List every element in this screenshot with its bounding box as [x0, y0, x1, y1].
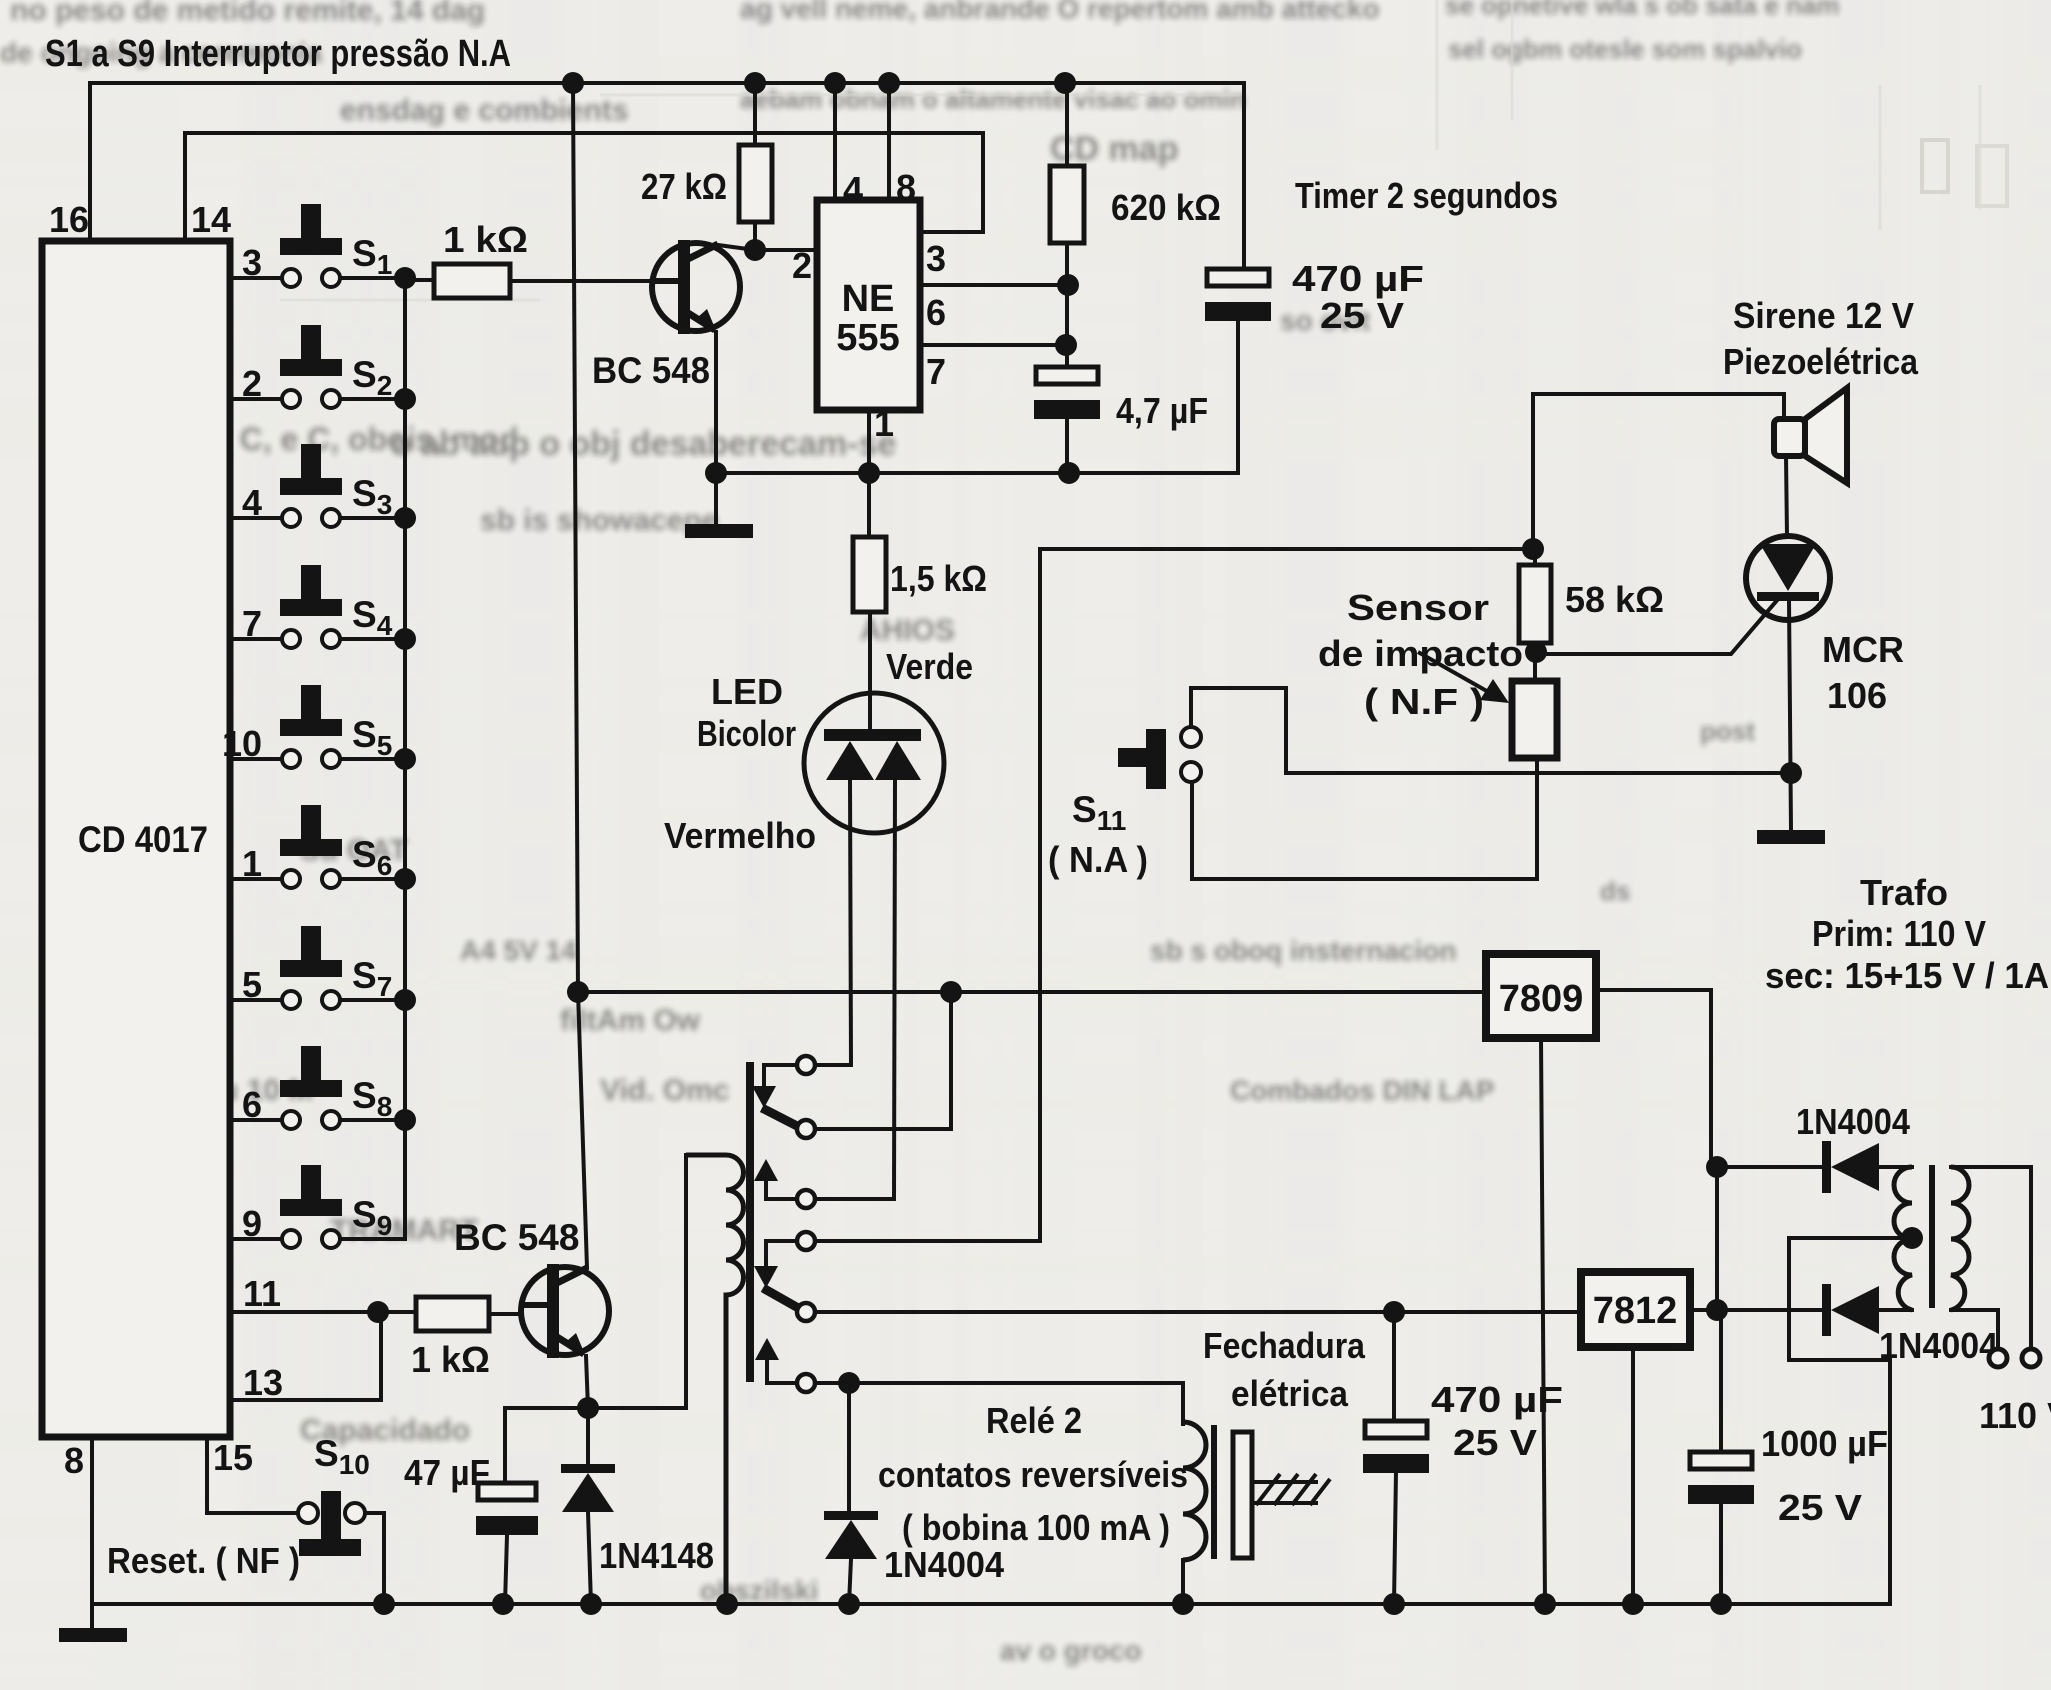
svg-text:1N4004: 1N4004: [1879, 1325, 1998, 1366]
svg-text:1N4004: 1N4004: [1796, 1101, 1910, 1142]
wire upper diode to secondary: [1879, 1165, 1912, 1169]
svg-text:11: 11: [243, 1273, 281, 1314]
wire contact4 to alarm feed: [816, 1239, 1040, 1243]
svg-text:S1 a S9 Interruptor pressão N.: S1 a S9 Interruptor pressão N.A: [45, 33, 511, 75]
svg-text:2: 2: [242, 363, 262, 404]
wire rectifier node vertical: [1715, 1167, 1719, 1310]
junction contact6 diode: [838, 1372, 860, 1394]
svg-text:1N4148: 1N4148: [599, 1535, 714, 1576]
IC CD4017 body: [42, 241, 230, 1437]
wire CD4017 pin 1 to S6: [230, 877, 282, 881]
switch S7 pushbutton: [301, 926, 321, 960]
svg-text:no peso de metido remite, 14 d: no peso de metido remite, 14 dag: [10, 0, 485, 27]
svg-text:sb s oboq insternacion: sb s oboq insternacion: [1150, 935, 1456, 966]
wire S1 to keypad bus: [340, 276, 405, 280]
junction 1N4148 rail: [580, 1593, 602, 1615]
svg-text:110 V: 110 V: [1979, 1395, 2051, 1436]
svg-text:CD 4017: CD 4017: [78, 819, 208, 860]
svg-text:1 kΩ: 1 kΩ: [411, 1339, 490, 1380]
wire siren to MCR anode: [1786, 456, 1787, 537]
junction 1N4004 rail: [838, 1593, 860, 1615]
svg-text:16: 16: [49, 199, 89, 240]
IC NE555 body: [817, 200, 920, 410]
wire Q2 emitter down: [586, 1356, 588, 1408]
relay contact 4 (NC pole2): [797, 1232, 815, 1250]
svg-text:6: 6: [242, 1084, 262, 1125]
svg-text:Vermelho: Vermelho: [664, 815, 816, 856]
junction 470uF2 rail: [1383, 1593, 1405, 1615]
wire node to 47uF: [505, 1406, 588, 1410]
svg-text:1,5 kΩ: 1,5 kΩ: [890, 558, 987, 599]
relay arm pole1: [762, 1108, 799, 1127]
resistor R 1k (keypad): [434, 264, 510, 298]
svg-text:sec: 15+15 V / 1A: sec: 15+15 V / 1A: [1765, 955, 2049, 996]
svg-text:Prim: 110 V: Prim: 110 V: [1812, 913, 1986, 954]
wire contact2 to 9V rail: [816, 992, 951, 1129]
svg-text:8: 8: [64, 1440, 84, 1481]
ground (Q1 emitter): [685, 524, 753, 538]
svg-text:4,7 µF: 4,7 µF: [1116, 390, 1208, 431]
wire NO1 stub: [766, 1181, 796, 1199]
wire 7812 in: [1690, 1308, 1717, 1312]
wire 1.5k to LED: [868, 612, 872, 731]
junction 4.7uF ground row: [1058, 462, 1080, 484]
wire S4 to keypad bus: [340, 637, 405, 641]
wire NE555 pin 6: [920, 283, 1069, 287]
svg-text:7: 7: [242, 603, 262, 644]
wire S3 to keypad bus: [340, 516, 405, 520]
wire to lower 1N4004: [1717, 1308, 1822, 1312]
wire CD4017 pin 7 to S4: [230, 637, 282, 641]
wire 4.7uF to ground row: [1065, 417, 1069, 473]
regulator 7812 body: [1581, 1272, 1690, 1347]
svg-text:Timer 2 segundos: Timer 2 segundos: [1295, 175, 1558, 216]
svg-text:LED: LED: [711, 671, 783, 712]
switch S11 pushbutton: [1118, 748, 1150, 767]
junction Q2 emitter node: [577, 1397, 599, 1419]
wire CD4017 pin 11: [230, 1310, 416, 1314]
svg-text:Combados DIN LAP: Combados DIN LAP: [1230, 1075, 1494, 1106]
wire 620k to 4.7uF: [1065, 243, 1069, 367]
svg-text:7: 7: [926, 351, 946, 392]
wire bus to 1k resistor: [405, 278, 434, 282]
junction 47uF rail: [492, 1593, 514, 1615]
wire pin 15 to S10: [207, 1437, 298, 1513]
resistor 620k: [1050, 166, 1084, 243]
junction pin7: [1055, 334, 1077, 356]
svg-text:BC 548: BC 548: [454, 1217, 579, 1258]
ground (pin 8): [59, 1628, 127, 1642]
wire S11 bottom to sensor: [1192, 758, 1537, 879]
svg-text:13: 13: [243, 1362, 283, 1403]
wire primary top to terminal: [1951, 1167, 2031, 1350]
switch S10 pushbutton: [298, 1503, 318, 1523]
wire S10 to bottom rail: [365, 1513, 384, 1604]
svg-text:7812: 7812: [1593, 1290, 1678, 1332]
capacitor 1000uF: [1690, 1452, 1752, 1469]
wire +9V vertical to Q2 collector: [573, 83, 587, 1268]
regulator 7809 body: [1486, 954, 1596, 1038]
svg-text:15: 15: [213, 1437, 253, 1478]
svg-text:ds: ds: [1600, 876, 1630, 906]
wire contact3 to LED green: [816, 1197, 894, 1201]
transistor Q2 BC548: [521, 1267, 609, 1355]
wire ground row to 1.5k: [867, 473, 871, 537]
svg-text:Piezoelétrica: Piezoelétrica: [1723, 341, 1919, 382]
svg-text:3: 3: [242, 242, 262, 283]
svg-text:Verde: Verde: [886, 646, 973, 687]
wire S6 to keypad bus: [340, 877, 405, 881]
junction MCR cathode node: [1780, 762, 1802, 784]
svg-text:sb is showacepe: sb is showacepe: [480, 504, 718, 537]
svg-text:elétrica: elétrica: [1231, 1373, 1349, 1414]
junction S8 bus: [394, 1109, 416, 1131]
capacitor 4.7uF: [1036, 367, 1098, 384]
junction Q1 collector / 27k / pin2: [744, 239, 766, 261]
resistor 27k: [739, 145, 772, 222]
wire CD4017 pin 6 to S8: [230, 1118, 282, 1122]
siren speaker: [1774, 419, 1805, 456]
wire rail to 620k: [1065, 83, 1069, 166]
wire NE555 pin 7: [920, 343, 1065, 347]
wire node to NE555 pin 2: [755, 248, 817, 252]
junction S1 bus: [394, 267, 416, 289]
wire 12V to 470uF2: [1392, 1312, 1396, 1421]
wire NC2 stub: [766, 1241, 796, 1266]
svg-text:CD map: CD map: [1050, 130, 1178, 168]
resistor 58k: [1519, 565, 1551, 643]
terminal 110V a: [1989, 1349, 2007, 1367]
wire CD4017 pin 10 to S5: [230, 757, 282, 761]
impact sensor body: [1512, 681, 1557, 758]
junction S2 bus: [394, 388, 416, 410]
relay contact 3 (NO pole1): [797, 1190, 815, 1208]
wire to upper 1N4004: [1717, 1165, 1822, 1169]
wire contact5 to 7812 out: [816, 1310, 1581, 1314]
svg-text:( N.A ): ( N.A ): [1048, 839, 1148, 880]
wire NE555 pin 1 down: [867, 410, 871, 473]
svg-text:( bobina 100 mA ): ( bobina 100 mA ): [902, 1507, 1170, 1548]
svg-text:8: 8: [896, 167, 916, 208]
junction rectifier + upper: [1706, 1156, 1728, 1178]
electric lock armature: [1233, 1432, 1252, 1558]
svg-text:ensdag e combients: ensdag e combients: [340, 94, 628, 127]
junction 7812 gnd rail: [1622, 1593, 1644, 1615]
transistor Q1 BC548: [652, 243, 740, 331]
relay NO2 arrow: [755, 1338, 779, 1360]
diode 1N4148: [561, 1464, 615, 1473]
junction center tap: [1901, 1227, 1923, 1249]
resistor 1k (Q2): [416, 1297, 489, 1331]
svg-text:Reset. ( NF ): Reset. ( NF ): [107, 1540, 300, 1581]
wire 470uF2 to rail: [1394, 1471, 1396, 1604]
svg-text:Sirene 12 V: Sirene 12 V: [1733, 295, 1914, 336]
wire 1N4004 to bottom rail: [849, 1559, 851, 1604]
junction 58k sensor gate: [1525, 641, 1547, 663]
wire Q1 collector to node: [718, 245, 755, 250]
junction pin4 rail: [824, 72, 846, 94]
capacitor 470uF timer: [1207, 269, 1269, 286]
wire alarm feed down to relay: [1038, 549, 1042, 1241]
transformer secondary coil: [1894, 1167, 1912, 1310]
svg-text:AHIOS: AHIOS: [860, 614, 955, 647]
capacitor 470uF (12V): [1365, 1421, 1427, 1438]
svg-text:9: 9: [242, 1203, 262, 1244]
wire coil to Q2 emitter node: [588, 1155, 686, 1408]
wire 47uF to bottom rail: [505, 1535, 507, 1604]
junction 9V rail start: [567, 981, 589, 1003]
junction 1000uF rail: [1710, 1593, 1732, 1615]
relay contact 1 (NC pole1): [797, 1056, 815, 1074]
wire ground row: [716, 319, 1238, 473]
svg-text:sel ogbm otesle som spalvio: sel ogbm otesle som spalvio: [1448, 34, 1802, 64]
junction S4 bus: [394, 628, 416, 650]
svg-text:1000 µF: 1000 µF: [1761, 1423, 1888, 1464]
wire keypad bus vertical: [403, 278, 407, 1239]
wire bottom rail / center tap: [92, 1238, 1912, 1604]
svg-text:14: 14: [191, 199, 231, 240]
svg-text:MCR: MCR: [1822, 629, 1904, 670]
svg-text:6: 6: [926, 292, 946, 333]
junction S10 rail: [373, 1593, 395, 1615]
junction coil rail: [716, 1593, 738, 1615]
junction pin8 rail: [878, 72, 900, 94]
wire node to 27k: [753, 222, 757, 250]
svg-text:106: 106: [1827, 675, 1887, 716]
diode 1N4004 upper: [1822, 1141, 1831, 1193]
switch S6 pushbutton: [301, 805, 321, 839]
wire S2 to keypad bus: [340, 397, 405, 401]
svg-text:47 µF: 47 µF: [404, 1452, 490, 1493]
junction S6 bus: [394, 868, 416, 890]
wire to MCR gate: [1536, 598, 1779, 654]
svg-text:3: 3: [926, 238, 946, 279]
relay contact 2 (common pole1): [797, 1120, 815, 1138]
svg-text:27 kΩ: 27 kΩ: [641, 166, 727, 207]
wire NE555 pin 4 to rail: [833, 83, 837, 200]
svg-text:aebam obnam o altamente visac: aebam obnam o altamente visac ao omin: [740, 84, 1246, 114]
relay NC1 arrow: [752, 1086, 776, 1108]
svg-text:620 kΩ: 620 kΩ: [1111, 187, 1221, 228]
LED bicolor: [804, 693, 944, 833]
wire +9V top rail: [90, 83, 1244, 269]
svg-text:A4 5V 14: A4 5V 14: [460, 935, 577, 966]
wire 1k to Q1 base: [510, 279, 660, 283]
wire CD4017 pin 4 to S3: [230, 516, 282, 520]
wire S9 to keypad bus: [340, 1237, 405, 1241]
svg-text:Bicolor: Bicolor: [697, 713, 796, 754]
sensor arrow: [1418, 652, 1499, 698]
svg-text:470 µF: 470 µF: [1292, 258, 1424, 299]
svg-text:NE: NE: [842, 278, 895, 320]
svg-text:25 V: 25 V: [1453, 1422, 1537, 1463]
junction pin1 ground row: [858, 462, 880, 484]
transformer core: [1929, 1165, 1935, 1308]
switch S2 pushbutton: [301, 325, 321, 359]
junction alarm feed 58k: [1522, 538, 1544, 560]
wire 58k top: [1533, 549, 1537, 565]
junction +9V vertical on rail: [562, 72, 584, 94]
switch S5 pushbutton: [301, 685, 321, 719]
transformer primary coil: [1951, 1167, 1969, 1310]
junction lock rail: [1172, 1593, 1194, 1615]
ground (MCR): [1757, 830, 1825, 844]
electric lock core: [1211, 1425, 1217, 1559]
wire alarm feed: [1040, 547, 1533, 551]
terminal 110V b: [2022, 1349, 2040, 1367]
relay contact 6 (NO pole2): [797, 1374, 815, 1392]
junction Q1 emitter / ground row: [705, 462, 727, 484]
wire lower diode to secondary: [1879, 1308, 1912, 1312]
electric lock coil: [1183, 1422, 1206, 1560]
svg-text:Sensor: Sensor: [1347, 587, 1489, 628]
svg-text:Trafo: Trafo: [1860, 872, 1948, 913]
svg-text:Fechadura: Fechadura: [1203, 1325, 1366, 1366]
wire S5 to keypad bus: [340, 757, 405, 761]
wire Q1 emitter down: [714, 332, 718, 524]
svg-text:av o groco: av o groco: [1000, 1635, 1142, 1666]
junction 470uF2 top: [1383, 1301, 1405, 1323]
switch S8 pushbutton: [301, 1046, 321, 1080]
svg-text:10: 10: [222, 723, 262, 764]
svg-text:1 kΩ: 1 kΩ: [443, 219, 528, 260]
svg-text:post: post: [1700, 716, 1755, 746]
svg-text:contatos reversíveis: contatos reversíveis: [878, 1454, 1188, 1495]
relay coil: [686, 1155, 744, 1604]
svg-text:1: 1: [242, 843, 262, 884]
svg-text:1: 1: [874, 403, 894, 444]
switch S9 pushbutton: [301, 1165, 321, 1199]
svg-text:5: 5: [242, 964, 262, 1005]
svg-text:4: 4: [242, 482, 262, 523]
svg-text:Relé 2: Relé 2: [986, 1400, 1082, 1441]
junction 27k on +9V rail: [744, 72, 766, 94]
svg-text:25 V: 25 V: [1320, 295, 1404, 336]
switch S1 pushbutton: [301, 204, 321, 238]
svg-text:58 kΩ: 58 kΩ: [1565, 579, 1664, 620]
diode 1N4004 (relay): [824, 1511, 878, 1520]
svg-text:BC 548: BC 548: [592, 350, 710, 391]
wire NC1 stub: [764, 1065, 796, 1086]
relay contact 5 (common pole2): [797, 1303, 815, 1321]
wire 47uF riser: [503, 1408, 507, 1483]
wire primary bottom to terminal: [1951, 1310, 1998, 1350]
wire 7812 gnd: [1631, 1347, 1635, 1604]
resistor 1.5k: [853, 537, 886, 612]
svg-text:2: 2: [792, 245, 812, 286]
wire to siren: [1533, 394, 1784, 549]
wire 1000uF to rail: [1719, 1502, 1723, 1604]
wire rectifier to 1000uF: [1719, 1310, 1723, 1452]
relay NC2 arrow: [754, 1266, 778, 1288]
svg-text:( N.F ): ( N.F ): [1364, 681, 1484, 722]
junction S3 bus: [394, 507, 416, 529]
wire CD4017 pin 3 to S1: [230, 276, 282, 280]
wire lock coil to rail: [1181, 1560, 1185, 1604]
wire MCR cathode to ground: [1789, 601, 1791, 830]
wire LED green anode down: [894, 780, 895, 1199]
junction rectifier + lower: [1706, 1299, 1728, 1321]
relay arm pole2: [763, 1288, 800, 1309]
switch S3 pushbutton: [301, 444, 321, 478]
junction S5 bus: [394, 748, 416, 770]
wire contact1 to LED red: [816, 1063, 851, 1067]
wire NE555 pin3 to CD4017 pin14 clock rail: [185, 133, 983, 241]
capacitor 47uF: [478, 1483, 536, 1500]
wire node to 1N4148: [586, 1408, 590, 1464]
wire 1N4148 to bottom rail: [588, 1512, 591, 1604]
wire contact6 to lock: [816, 1383, 1183, 1424]
svg-text:7809: 7809: [1499, 978, 1584, 1020]
junction pin11 pin13: [367, 1301, 389, 1323]
wire CD4017 pin 9 to S9: [230, 1237, 282, 1241]
wire S11 top to MCR cathode: [1191, 688, 1791, 773]
wire 7809 in from rectifier: [1596, 990, 1711, 1167]
wire CD4017 pin 13: [230, 1312, 381, 1400]
svg-text:se opnetive wla s ob sata e na: se opnetive wla s ob sata e nam: [1445, 0, 1839, 20]
diode 1N4004 lower: [1822, 1284, 1831, 1336]
wire 1k to Q2 base: [489, 1312, 521, 1316]
wire 7809 gnd: [1541, 1038, 1545, 1604]
wire S7 to keypad bus: [340, 998, 405, 1002]
wire CD4017 pin 2 to S2: [230, 397, 282, 401]
wire CD4017 pin 5 to S7: [230, 998, 282, 1002]
junction S7 bus: [394, 989, 416, 1011]
relay NO1 arrow: [754, 1159, 778, 1181]
svg-text:ag vell neme, anbrande O reper: ag vell neme, anbrande O repertom amb at…: [740, 0, 1380, 24]
wire NE555 pin 8 to rail: [887, 83, 891, 200]
wire 58k to sensor: [1533, 652, 1537, 681]
svg-text:Vid. Omc: Vid. Omc: [600, 1074, 730, 1107]
svg-text:4: 4: [843, 169, 863, 210]
relay armature bar: [746, 1062, 754, 1382]
svg-text:555: 555: [836, 317, 899, 359]
wire LED red anode down: [850, 780, 851, 1065]
junction 7809 gnd rail: [1534, 1593, 1556, 1615]
wire 27k to +9V rail: [753, 83, 757, 145]
svg-text:25 V: 25 V: [1778, 1487, 1862, 1528]
junction 620k rail: [1054, 72, 1076, 94]
junction relay common to 9V rail: [940, 981, 962, 1003]
wire CD4017 pin 8 to ground: [90, 1437, 94, 1628]
wire S8 to keypad bus: [340, 1118, 405, 1122]
wire to 1N4004 relay: [847, 1383, 851, 1511]
wire NO2 stub: [767, 1360, 796, 1383]
switch S4 pushbutton: [301, 565, 321, 599]
thyristor MCR106: [1746, 536, 1830, 620]
wire 9V rail to 7809: [578, 990, 1486, 994]
svg-text:1N4004: 1N4004: [884, 1544, 1004, 1585]
junction pin6 620k: [1057, 274, 1079, 296]
